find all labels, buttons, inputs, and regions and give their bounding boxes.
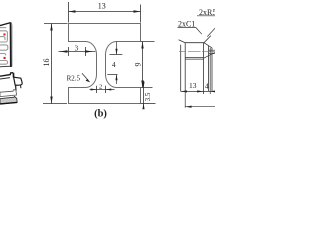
R2.5 leader arrowhead <box>86 79 91 83</box>
svg-text:R2.5: R2.5 <box>67 74 81 82</box>
red marker dot lower <box>4 57 6 59</box>
block right edge <box>208 46 210 92</box>
block front-right edge <box>203 43 205 94</box>
svg-text:16: 16 <box>42 59 51 67</box>
dim 9 line <box>142 42 144 88</box>
svg-text:3.5: 3.5 <box>144 92 152 101</box>
serpentine slots <box>0 28 8 65</box>
block back-top edge <box>204 36 211 43</box>
callout 2xC1 shelf and leader <box>178 28 202 35</box>
dim 13 line <box>69 11 141 13</box>
dim 4 arrow stubs <box>116 42 118 84</box>
dim 2 extension ticks <box>97 86 106 93</box>
block left face edge <box>180 45 182 92</box>
callout R5 leader <box>207 28 215 36</box>
svg-text:3: 3 <box>75 45 79 53</box>
dim 13 extension lines <box>69 2 141 23</box>
hole edge lines <box>209 50 215 54</box>
callout 2xR5 shelf <box>197 15 215 17</box>
centerline <box>179 50 215 52</box>
dim 16 arrows <box>50 24 52 104</box>
part outline <box>69 24 141 104</box>
fixture plate 1 <box>0 90 17 97</box>
dim 9 extension lines <box>141 42 155 88</box>
bottom dim arrows <box>181 90 216 92</box>
plate bottom edge <box>0 65 10 68</box>
svg-text:13: 13 <box>189 81 197 90</box>
clamp bar top edge <box>0 73 13 77</box>
plate right edge <box>10 22 12 67</box>
red marker dot upper <box>3 33 5 35</box>
R2.5 leader line <box>82 73 88 80</box>
lower dim line <box>185 106 215 108</box>
clamp post <box>12 73 14 78</box>
svg-text:13: 13 <box>98 2 106 11</box>
dim 16 line <box>51 24 53 104</box>
dim 16 extension lines <box>43 24 68 104</box>
fixture base bar <box>0 96 17 104</box>
dim 4 extension lines <box>107 55 122 75</box>
block right chamfer to edge <box>209 46 212 48</box>
clamp block <box>14 77 22 85</box>
block lower stems <box>15 85 17 91</box>
bottom dim line 13/4 <box>181 90 215 92</box>
block outer right edge <box>211 48 213 91</box>
figure (b): dimensioned flexure drawing <box>42 2 156 120</box>
dim 9 arrows <box>141 42 143 88</box>
dim 3.5 outside arrows <box>142 82 144 109</box>
svg-text:4: 4 <box>205 81 209 90</box>
plate top edge <box>0 23 11 26</box>
block back-left edge <box>179 40 186 43</box>
lower ext line <box>184 91 186 107</box>
svg-text:4: 4 <box>112 60 116 69</box>
svg-text:2: 2 <box>99 84 102 91</box>
dim 2 outside arrows <box>91 89 112 91</box>
ext line for dim 4 right <box>209 48 211 94</box>
dim 2 line <box>90 89 115 91</box>
groove diagonal <box>204 52 216 58</box>
block chamfer edge <box>204 43 209 46</box>
dim 3.5 extension line bottom <box>141 103 156 105</box>
svg-text:9: 9 <box>133 63 142 67</box>
lower dim arrow <box>185 106 191 108</box>
svg-text:(b): (b) <box>94 109 107 120</box>
block front-left edge <box>184 43 186 92</box>
dim 3 line <box>59 51 96 53</box>
plate inner depth line <box>11 25 13 67</box>
dim 13 arrows <box>69 10 141 12</box>
dim 3 extension ticks <box>69 47 86 56</box>
groove double line <box>185 58 203 60</box>
block top edge <box>185 42 204 44</box>
dim 3.5 line <box>143 81 145 110</box>
dim 3 outside arrows <box>60 50 93 52</box>
clamp bar lower edge <box>0 78 10 79</box>
base bar bottom edge <box>0 102 17 104</box>
figure (c): side view with callouts, cut off at right <box>178 8 217 108</box>
figure (a): clamped specimen photo-view, cut off at left <box>0 22 22 104</box>
